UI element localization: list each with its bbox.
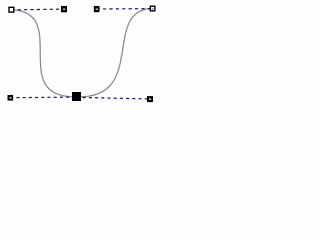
control handle square top-left [61, 6, 67, 12]
node 3: open square top-right [150, 6, 155, 11]
dashed handle line bottom-left [10, 96, 76, 99]
control handle square bottom-left [8, 95, 14, 101]
node 1: open square top-left [9, 7, 14, 12]
dashed handle line top-left [11, 8, 64, 11]
dashed handle line bottom-right [77, 97, 151, 99]
control handle square top-right [94, 6, 100, 12]
node 2: selected big square bottom-center [72, 92, 81, 101]
background [0, 0, 167, 113]
control handle square bottom-right [147, 96, 153, 102]
dashed handle line top-right [97, 8, 153, 10]
bezier curve path [12, 9, 153, 97]
